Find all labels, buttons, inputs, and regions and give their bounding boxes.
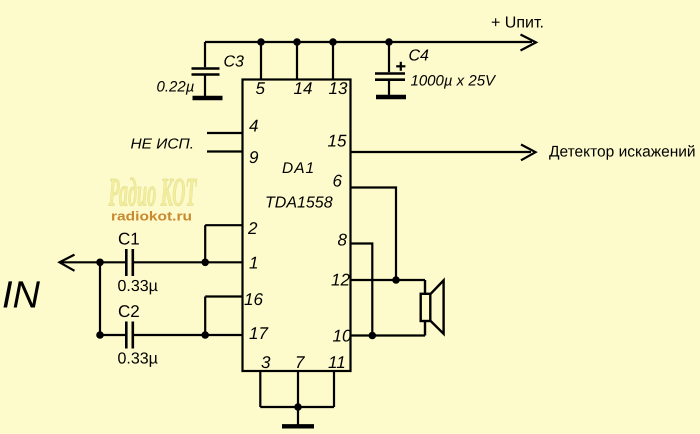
svg-text:0.33µ: 0.33µ bbox=[118, 278, 158, 295]
svg-text:3: 3 bbox=[261, 353, 271, 372]
svg-text:DA1: DA1 bbox=[282, 160, 315, 177]
svg-text:7: 7 bbox=[295, 353, 305, 372]
svg-text:0.22µ: 0.22µ bbox=[157, 78, 195, 95]
svg-text:Детектор искажений: Детектор искажений bbox=[549, 144, 696, 161]
svg-text:8: 8 bbox=[338, 231, 348, 250]
svg-text:6: 6 bbox=[333, 172, 343, 191]
svg-text:11: 11 bbox=[328, 353, 346, 372]
svg-text:C3: C3 bbox=[224, 54, 245, 71]
svg-text:16: 16 bbox=[244, 290, 263, 309]
svg-text:radiokot.ru: radiokot.ru bbox=[111, 210, 192, 224]
svg-text:2: 2 bbox=[247, 219, 258, 238]
svg-text:НЕ ИСП.: НЕ ИСП. bbox=[131, 137, 195, 153]
svg-text:TDA1558: TDA1558 bbox=[265, 195, 333, 212]
svg-text:C1: C1 bbox=[118, 229, 140, 248]
svg-text:5: 5 bbox=[256, 79, 266, 98]
svg-text:C2: C2 bbox=[118, 302, 140, 321]
svg-text:Радио КОТ: Радио КОТ bbox=[108, 169, 197, 214]
svg-text:9: 9 bbox=[249, 148, 259, 167]
svg-text:IN: IN bbox=[2, 275, 41, 317]
svg-text:14: 14 bbox=[294, 79, 313, 98]
svg-text:13: 13 bbox=[329, 79, 348, 98]
svg-text:0.33µ: 0.33µ bbox=[118, 351, 158, 368]
svg-text:1000µ x 25V: 1000µ x 25V bbox=[411, 72, 498, 89]
svg-text:10: 10 bbox=[333, 327, 352, 346]
svg-text:4: 4 bbox=[249, 117, 258, 136]
svg-text:C4: C4 bbox=[409, 48, 430, 65]
svg-text:12: 12 bbox=[331, 271, 350, 290]
svg-text:+ Uпит.: + Uпит. bbox=[491, 15, 544, 32]
svg-text:17: 17 bbox=[249, 324, 268, 343]
svg-text:15: 15 bbox=[328, 132, 347, 151]
svg-text:1: 1 bbox=[249, 254, 258, 273]
